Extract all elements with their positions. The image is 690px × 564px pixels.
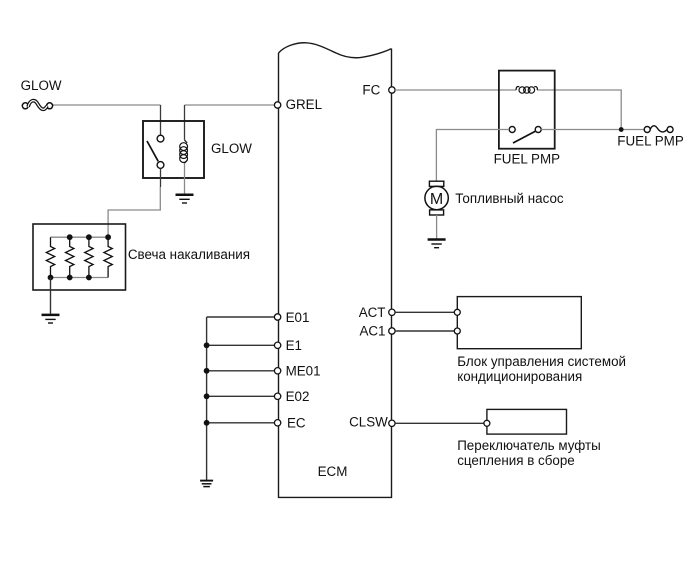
fuse FUEL PMP [644,126,673,133]
glow plug resistor 2 [65,237,73,277]
glow plugs box [33,224,126,290]
svg-text:FUEL PMP: FUEL PMP [617,134,684,149]
wire ACT [395,311,454,313]
svg-text:E01: E01 [286,310,310,325]
label Свеча накаливания [128,247,250,262]
label ACT [359,305,386,320]
svg-text:Блок управления системой: Блок управления системой [457,354,626,369]
relay GLOW box [143,121,204,178]
wire EC [207,422,275,424]
svg-text:кондиционирования: кондиционирования [457,369,582,384]
svg-text:GLOW: GLOW [21,78,62,93]
svg-text:сцепления в сборе: сцепления в сборе [457,453,575,468]
wire E bus vertical [206,317,208,480]
pin E02 [274,393,280,399]
wire CLSW [395,422,484,424]
fuse GLOW [22,101,52,110]
wire AC1 [395,330,454,332]
pin ACT [389,309,395,315]
svg-text:GLOW: GLOW [211,141,252,156]
wire relay switch to motor [436,130,509,182]
glow plug resistor 1 [46,237,54,277]
label Блок управления системой [457,354,626,369]
wire motor to ground [436,215,438,238]
wire FC to fuel pump relay coil [395,89,516,91]
pin GREL [274,102,280,108]
svg-text:ME01: ME01 [286,364,321,379]
relay FUEL PMP box [499,71,555,149]
ground motor [428,240,446,248]
relay FUEL PMP coil [516,87,537,94]
label сцепления в сборе [457,453,575,468]
svg-text:M: M [430,191,443,208]
junction dot fuel pump [619,127,624,132]
relay GLOW switch blade [147,141,158,161]
glow plugs bottom bus [51,277,109,279]
wire E02 [207,395,275,397]
label Переключатель муфты [457,438,601,453]
ground relay coil [176,195,194,203]
ground E bus [200,481,213,487]
label AC1 [359,324,385,339]
pin ME01 [274,368,280,374]
clutch switch box [487,409,567,434]
label Топливный насос [455,191,564,206]
wire relay coil to ground [184,163,186,194]
ECM box [279,43,392,498]
svg-text:EC: EC [287,416,306,431]
svg-text:Переключатель муфты: Переключатель муфты [457,438,601,453]
label GLOW (fuse) [21,78,62,93]
label FC [362,83,380,98]
pin E1 [274,342,280,348]
label GLOW (relay) [211,141,252,156]
clutch switch pin [484,420,490,426]
relay GLOW coil [180,140,188,163]
wire coil to junction [537,90,621,127]
pin CLSW [389,420,395,426]
wire GREL pin to relay coil [185,104,275,106]
label GREL [286,97,322,112]
wire E01 [207,316,275,318]
motor fuel pump [425,181,448,215]
relay GLOW switch contacts [157,135,164,168]
ground glow plugs [42,315,60,323]
label ECM [318,464,348,479]
junction dots E bus [204,342,210,425]
wire glow plugs to ground [50,278,52,314]
label FUEL PMP (fuse) [617,134,684,149]
label CLSW [349,415,388,430]
svg-text:E1: E1 [286,338,302,353]
svg-text:GREL: GREL [286,97,322,112]
A/C amplifier box [457,297,581,349]
label EC [287,416,306,431]
wire to glow plugs [108,187,160,237]
pin EC [274,420,280,426]
label E1 [286,338,302,353]
label E01 [286,310,310,325]
A/C box pins [454,309,460,334]
wire drop to relay switch [160,105,162,135]
svg-text:ECM: ECM [318,464,348,479]
svg-text:Свеча накаливания: Свеча накаливания [128,247,250,262]
junction dots glow plugs top bus [67,234,111,240]
wire ME01 [207,370,275,372]
pin AC1 [389,328,395,334]
svg-text:FUEL PMP: FUEL PMP [494,152,561,167]
label E02 [286,389,310,404]
svg-text:Топливный насос: Топливный насос [455,191,564,206]
junction dots glow plugs bottom bus [48,275,92,281]
label FUEL PMP (relay) [494,152,561,167]
label ME01 [286,364,321,379]
svg-text:ACT: ACT [359,305,386,320]
svg-text:CLSW: CLSW [349,415,388,430]
glow plug resistor 3 [85,237,93,277]
svg-text:AC1: AC1 [359,324,385,339]
svg-text:E02: E02 [286,389,310,404]
label кондиционирования [457,369,582,384]
wire relay switch to junction [541,129,644,131]
pin E01 [274,314,280,320]
glow plugs top bus [51,236,109,238]
svg-text:FC: FC [362,83,380,98]
pin FC [389,87,395,93]
wire GLOW fuse to relay switch [52,104,160,106]
relay FUEL PMP switch contacts [509,127,541,133]
wire drop to relay coil [184,105,186,140]
glow plug resistor 4 [104,237,112,277]
wire relay switch to glow plugs [160,169,162,188]
relay FUEL PMP switch blade [513,131,535,143]
wire E1 [207,344,275,346]
